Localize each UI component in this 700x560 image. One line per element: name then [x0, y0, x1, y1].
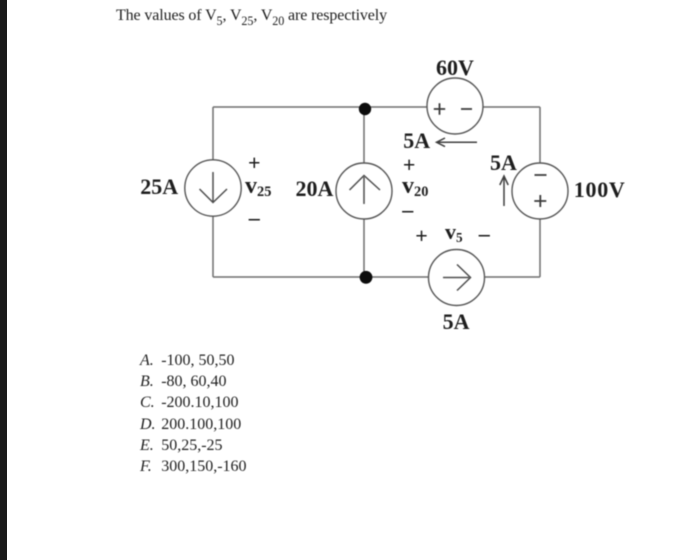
left black bar [0, 0, 7, 560]
wire left lower [212, 216, 214, 277]
label 100V [574, 179, 626, 201]
label 5A (bottom) [443, 311, 470, 333]
answer option C [140, 395, 155, 411]
voltage source V100 circle [512, 163, 568, 219]
label v20 [402, 174, 428, 198]
current source I3 5A circle (bottom) [429, 250, 485, 306]
answer option A [140, 353, 154, 369]
wire left upper [212, 107, 214, 160]
wire middle lower [363, 219, 365, 277]
wire right lower [539, 219, 541, 277]
label 5A (left of 100V) [490, 152, 517, 174]
label 20A [296, 178, 334, 200]
current source I1 25A circle [185, 160, 241, 216]
node B (bottom junction dot) [360, 271, 373, 284]
5A branch arrow (left, under 60V) [437, 138, 478, 147]
label V5 [445, 221, 463, 243]
label 25A [140, 176, 178, 198]
wire bottom-left segment [213, 276, 429, 278]
node A (top junction dot) [359, 103, 371, 115]
wire top-right segment [483, 106, 540, 108]
5A branch arrow (up, left of 100V) [500, 176, 508, 206]
label v25 [245, 174, 271, 198]
label + of V5 [415, 225, 428, 247]
voltage source V60 circle [427, 78, 483, 134]
label - of V5 [479, 223, 490, 245]
label 60V [436, 57, 474, 79]
wire bottom-right segment [485, 276, 540, 278]
label + of v20 [403, 154, 416, 176]
label + of v25 [248, 152, 261, 174]
label 5A (under 60V) [403, 130, 430, 152]
answer option E [140, 438, 154, 454]
label - of v25 [249, 207, 260, 229]
wire middle upper [363, 109, 365, 163]
answer option B [140, 374, 154, 390]
answer option F [140, 459, 152, 475]
current source I2 20A circle [336, 163, 392, 219]
label - of v20 [402, 199, 413, 221]
wire top-left segment [213, 106, 427, 108]
answer option D [140, 417, 156, 433]
wire right upper [539, 107, 541, 163]
title [116, 8, 387, 24]
